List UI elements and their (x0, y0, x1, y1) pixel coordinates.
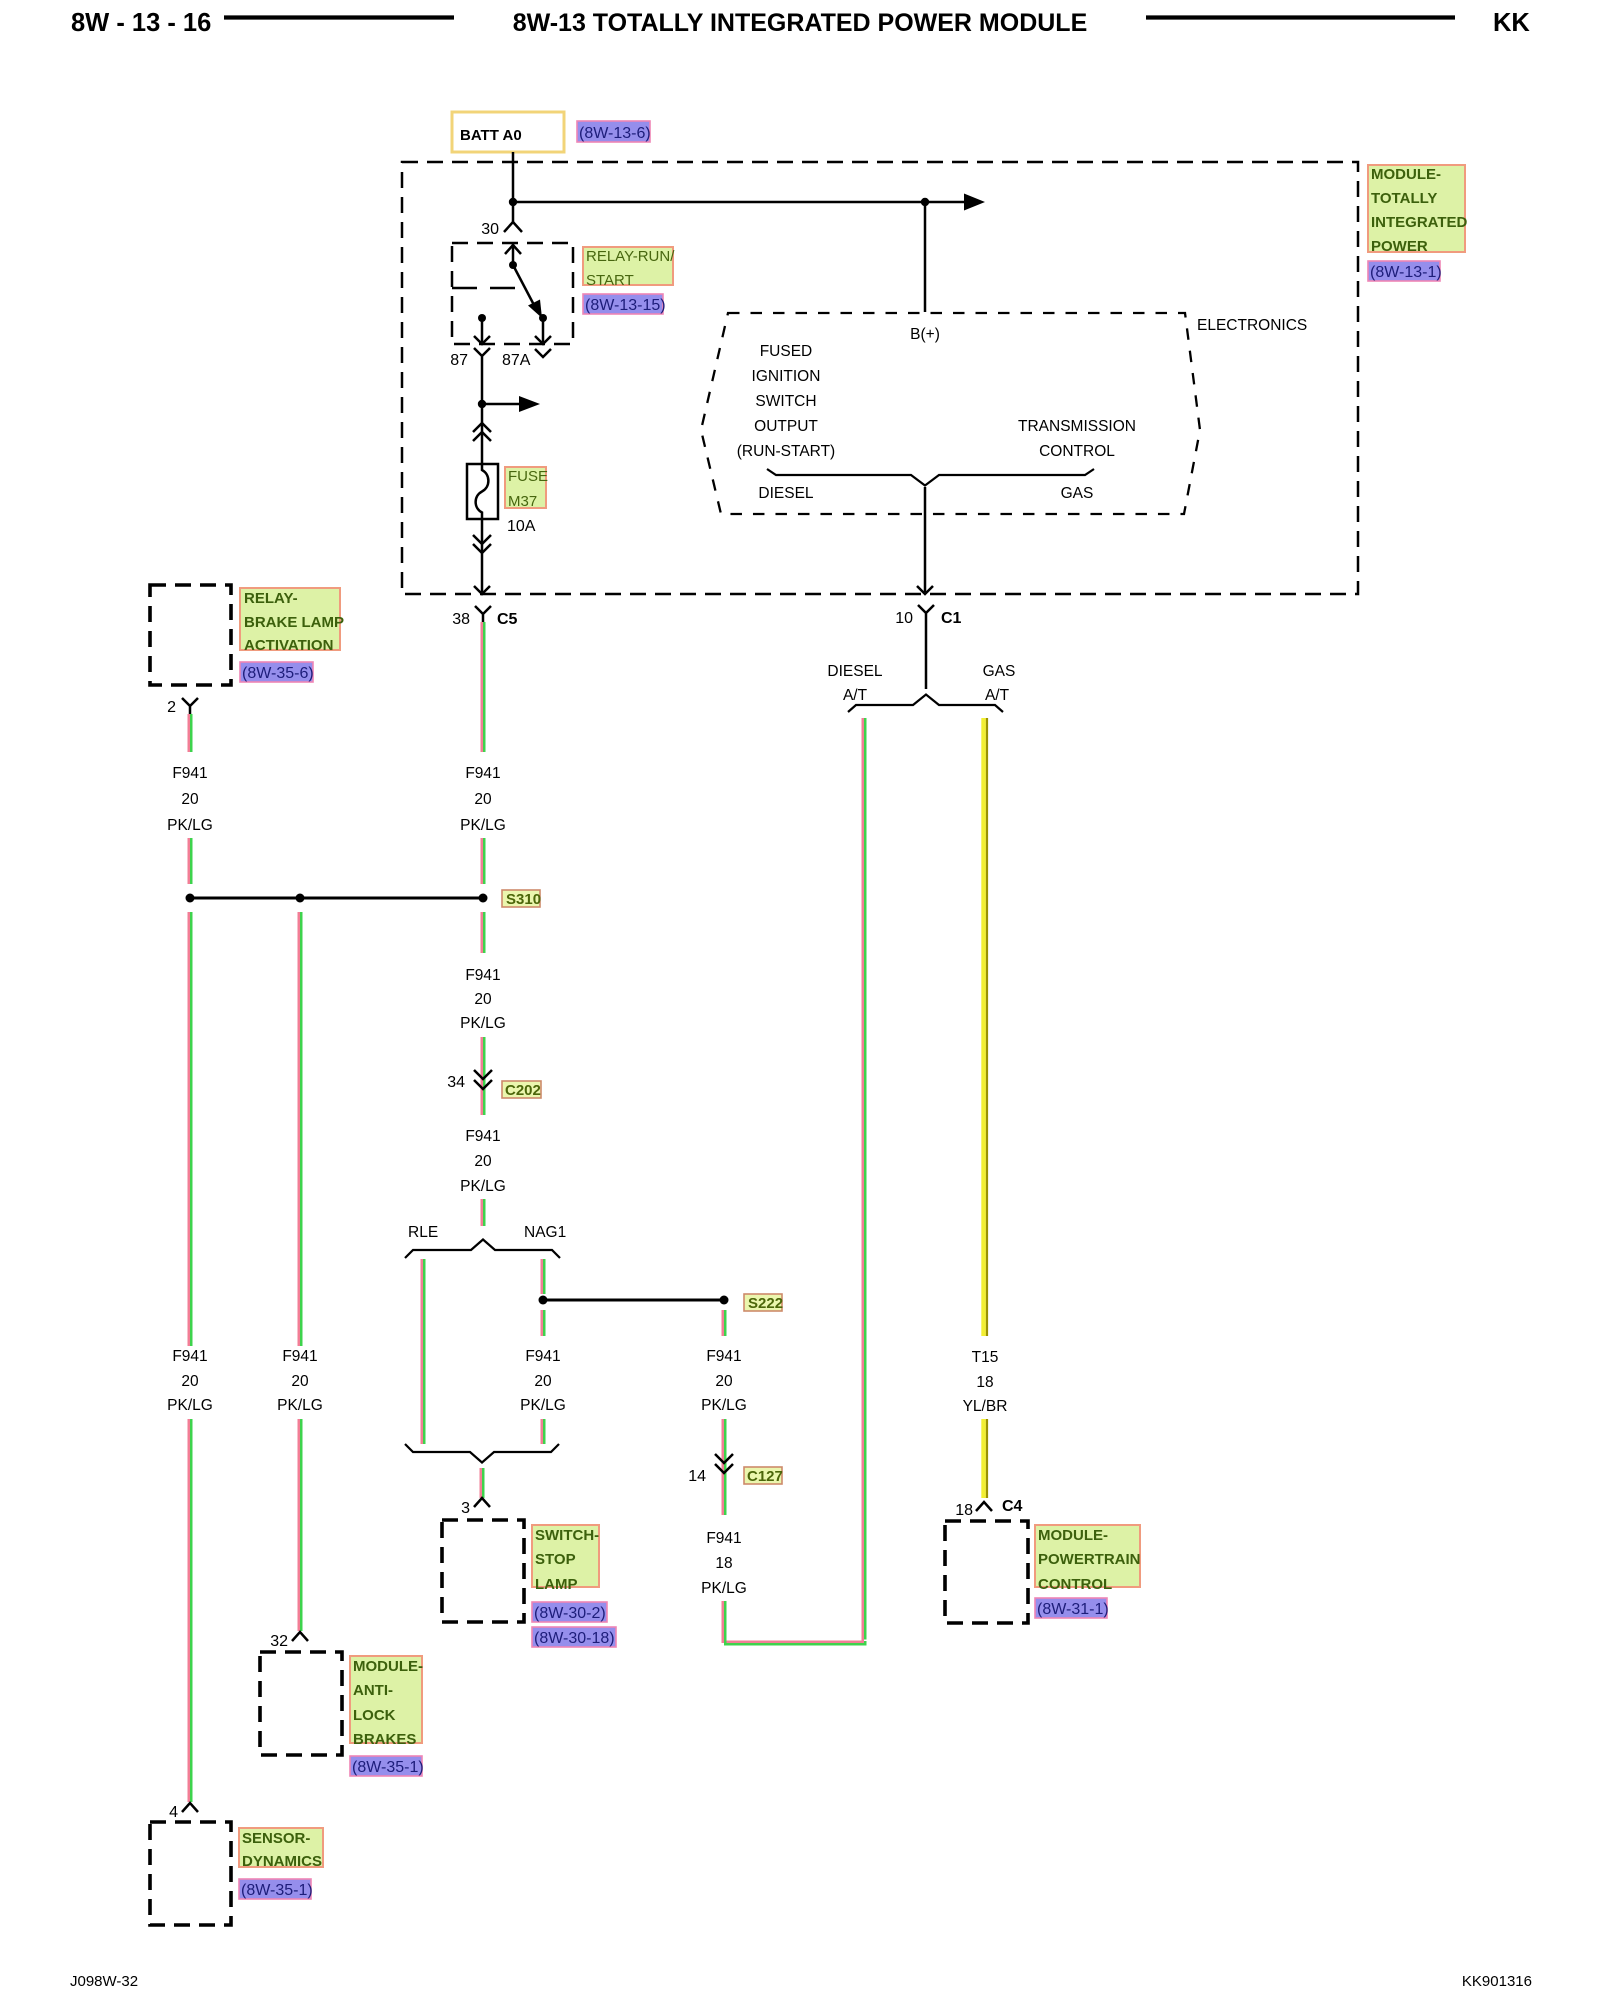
wire RLE branch (422, 1259, 425, 1444)
svg-text:F941: F941 (525, 1348, 560, 1365)
wire fuse to C5 exit (481, 519, 484, 592)
wire junction to fuse (481, 404, 484, 466)
svg-text:(8W-35-1): (8W-35-1) (352, 1759, 424, 1776)
svg-text:B(+): B(+) (910, 326, 940, 343)
svg-text:IGNITION: IGNITION (752, 368, 821, 385)
arrow exit at TIPM edge (474, 586, 490, 594)
svg-text:S222: S222 (748, 1295, 783, 1312)
junction node S310 middle (296, 894, 305, 903)
svg-text:(RUN-START): (RUN-START) (737, 443, 835, 460)
svg-text:F941: F941 (465, 967, 500, 984)
svg-text:RLE: RLE (408, 1224, 438, 1241)
connector C202 pin 34 chevrons (447, 1070, 492, 1091)
wire label F941 18 PK/LG (701, 1530, 747, 1597)
pin 87 connector Y (450, 348, 490, 369)
svg-text:GAS: GAS (1061, 485, 1094, 502)
brace merge RLE/NAG1 (405, 1444, 559, 1463)
svg-text:MODULE-: MODULE- (1371, 166, 1441, 183)
svg-text:8W - 13 - 16: 8W - 13 - 16 (71, 9, 211, 37)
wire electronics to C1 exit (924, 487, 927, 592)
wire pin 2 drop to splice S310 (189, 838, 192, 884)
svg-text:2: 2 (167, 699, 176, 716)
svg-text:LOCK: LOCK (353, 1707, 396, 1724)
svg-text:STOP: STOP (535, 1551, 576, 1568)
wire C1 lead (925, 622, 928, 689)
wire middle branch to pin 32 (299, 1419, 302, 1631)
wire NAG1 below S222 (542, 1310, 545, 1336)
wire merge to pin 3 (481, 1468, 484, 1498)
svg-text:PK/LG: PK/LG (701, 1580, 747, 1597)
svg-text:32: 32 (270, 1633, 288, 1650)
wire through C127 (723, 1419, 726, 1515)
junction node S310 left (186, 894, 195, 903)
svg-text:RELAY-RUN/: RELAY-RUN/ (586, 248, 675, 265)
svg-text:10: 10 (895, 610, 913, 627)
svg-text:INTEGRATED: INTEGRATED (1371, 214, 1468, 231)
ref label (8W-30-2) (532, 1602, 607, 1622)
splice S310 bus (190, 897, 483, 900)
ref label (8W-35-1) sensor (239, 1879, 313, 1899)
svg-text:MODULE-: MODULE- (1038, 1527, 1108, 1544)
svg-text:(8W-30-2): (8W-30-2) (534, 1605, 606, 1622)
wire label F941 20 PK/LG (NAG1) (520, 1348, 566, 1414)
wire S222 right branch down (723, 1310, 726, 1336)
pin 4 connector chevron (169, 1803, 198, 1821)
junction node S310 right (479, 894, 488, 903)
wire label F941 20 PK/LG (C5 drop) (460, 765, 506, 834)
wire BATT A0 feed into TIPM (512, 152, 515, 222)
svg-text:SENSOR-: SENSOR- (242, 1830, 310, 1847)
svg-text:KK901316: KK901316 (1462, 1973, 1532, 1990)
svg-text:KK: KK (1493, 9, 1530, 37)
component label SENSOR-DYNAMICS (239, 1828, 323, 1870)
svg-text:18: 18 (976, 1374, 993, 1391)
wire C127 to diesel junction elbow (723, 1601, 866, 1644)
svg-text:T15: T15 (972, 1349, 999, 1366)
svg-text:87A: 87A (502, 352, 531, 369)
wire through C202 (482, 1037, 485, 1115)
svg-text:20: 20 (715, 1373, 733, 1390)
svg-text:FUSE: FUSE (508, 468, 548, 485)
wire label F941 20 PK/LG (above C202) (460, 967, 506, 1032)
svg-text:F941: F941 (465, 765, 500, 782)
component label MODULE-POWERTRAIN CONTROL (1035, 1525, 1141, 1593)
header rule left (224, 15, 454, 19)
connector C127 pin 14 chevrons (688, 1454, 733, 1485)
fuse M37 box (467, 464, 498, 519)
svg-text:38: 38 (452, 611, 470, 628)
svg-text:20: 20 (474, 991, 492, 1008)
module label MODULE-TOTALLY INTEGRATED POWER (1368, 165, 1468, 255)
svg-text:OUTPUT: OUTPUT (754, 418, 818, 435)
svg-text:DIESEL: DIESEL (758, 485, 814, 502)
svg-text:14: 14 (688, 1468, 706, 1485)
svg-text:C202: C202 (505, 1082, 541, 1099)
svg-text:C4: C4 (1002, 1498, 1023, 1515)
svg-text:TRANSMISSION: TRANSMISSION (1018, 418, 1136, 435)
connector BATT A0 box (452, 112, 564, 152)
svg-text:3: 3 (461, 1500, 470, 1517)
relay movable contact arm to 87A (513, 265, 547, 322)
in-line connector chevrons up (473, 423, 491, 441)
relay K1 run/start dashed box (452, 243, 573, 344)
net label C202 (502, 1081, 541, 1099)
svg-text:PK/LG: PK/LG (460, 1178, 506, 1195)
block label TRANSMISSION CONTROL (1018, 418, 1136, 460)
arrow branch continues right (519, 396, 540, 412)
wire S310 middle branch down (299, 912, 302, 1346)
svg-text:DYNAMICS: DYNAMICS (242, 1853, 322, 1870)
svg-text:34: 34 (447, 1074, 465, 1091)
svg-text:M37: M37 (508, 493, 537, 510)
svg-text:20: 20 (181, 791, 199, 808)
wire DIESEL A/T pink-green (863, 718, 866, 1642)
svg-text:(8W-31-1): (8W-31-1) (1037, 1601, 1109, 1618)
wire feed to B(+) branch (513, 201, 964, 204)
svg-text:RELAY-: RELAY- (244, 590, 298, 607)
ref label (8W-35-6) (240, 662, 314, 682)
svg-text:F941: F941 (706, 1348, 741, 1365)
svg-text:C127: C127 (747, 1468, 783, 1485)
svg-text:PK/LG: PK/LG (520, 1397, 566, 1414)
wire T15 GAS A/T yellow (984, 718, 987, 1336)
net label C127 (744, 1467, 783, 1485)
connector C4 pin 18 (955, 1498, 1022, 1519)
svg-text:S310: S310 (506, 891, 541, 908)
svg-text:F941: F941 (282, 1348, 317, 1365)
wire C5 drop to splice S310 (482, 838, 485, 884)
svg-text:ELECTRONICS: ELECTRONICS (1197, 317, 1307, 334)
svg-text:(8W-13-15): (8W-13-15) (585, 297, 666, 314)
ref label (8W-31-1) (1035, 1598, 1109, 1618)
svg-text:18: 18 (715, 1555, 732, 1572)
svg-text:BRAKES: BRAKES (353, 1731, 416, 1748)
svg-text:PK/LG: PK/LG (460, 817, 506, 834)
component label RELAY-BRAKE LAMP ACTIVATION (240, 588, 344, 654)
svg-text:20: 20 (474, 791, 492, 808)
switch stop lamp dashed box (442, 1520, 524, 1622)
junction node S222 left (539, 1296, 548, 1305)
wire label F941 20 PK/LG (left column) (167, 1348, 213, 1414)
svg-text:(8W-35-1): (8W-35-1) (241, 1882, 313, 1899)
svg-text:YL/BR: YL/BR (963, 1398, 1008, 1415)
svg-text:LAMP: LAMP (535, 1576, 578, 1593)
ref label (8W-35-1) abs (350, 1756, 424, 1776)
pin 87A connector V (502, 349, 551, 369)
svg-text:PK/LG: PK/LG (167, 817, 213, 834)
wire pin 2 drop (189, 714, 192, 752)
svg-text:F941: F941 (465, 1128, 500, 1145)
relay throw 87 leg (474, 314, 490, 344)
junction node 87 branch (478, 400, 486, 408)
svg-text:PK/LG: PK/LG (277, 1397, 323, 1414)
svg-text:NAG1: NAG1 (524, 1224, 566, 1241)
svg-text:POWERTRAIN: POWERTRAIN (1038, 1551, 1141, 1568)
wire NAG1 to merge brace (542, 1419, 545, 1444)
arrow exit at TIPM edge (917, 586, 933, 594)
svg-text:20: 20 (474, 1153, 492, 1170)
svg-text:4: 4 (169, 1804, 178, 1821)
brace split diesel/gas (848, 695, 1003, 713)
svg-text:A/T: A/T (985, 687, 1010, 704)
net label S222 (744, 1294, 783, 1312)
header rule right (1146, 15, 1455, 19)
svg-text:(8W-13-6): (8W-13-6) (579, 125, 651, 142)
ref label (8W-13-15) (583, 294, 666, 314)
svg-text:ANTI-: ANTI- (353, 1682, 393, 1699)
svg-text:CONTROL: CONTROL (1039, 443, 1115, 460)
svg-text:87: 87 (450, 352, 468, 369)
wire left column to pin 4 (189, 1419, 192, 1802)
wire 87 leg down (481, 366, 484, 404)
svg-text:TOTALLY: TOTALLY (1371, 190, 1437, 207)
relay fixed contact dashed tick (452, 287, 516, 290)
svg-text:C1: C1 (941, 610, 962, 627)
svg-text:F941: F941 (172, 765, 207, 782)
component label MODULE-ANTI-LOCK BRAKES (350, 1656, 423, 1748)
svg-text:C5: C5 (497, 611, 518, 628)
svg-text:F941: F941 (706, 1530, 741, 1547)
svg-text:POWER: POWER (1371, 238, 1428, 255)
svg-text:F941: F941 (172, 1348, 207, 1365)
svg-text:20: 20 (291, 1373, 309, 1390)
svg-text:(8W-13-1): (8W-13-1) (1370, 264, 1442, 281)
svg-text:30: 30 (481, 221, 499, 238)
pin 32 connector chevron (270, 1632, 308, 1650)
in-line connector chevrons down (473, 535, 491, 553)
wire C5 pin 38 drop (482, 622, 485, 752)
wire branch right (482, 403, 519, 406)
net label S310 (502, 890, 541, 908)
electronics block dashed outline (701, 313, 1200, 514)
net label DIESEL A/T (827, 663, 883, 704)
component label FUSE M37 (505, 467, 548, 510)
svg-text:18: 18 (955, 1502, 973, 1519)
wire label F941 20 PK/LG (below C202) (460, 1128, 506, 1195)
svg-text:PK/LG: PK/LG (701, 1397, 747, 1414)
svg-text:MODULE-: MODULE- (353, 1658, 423, 1675)
relay common leg pin 30 (505, 243, 521, 269)
wire label F941 20 PK/LG (S222 branch) (701, 1348, 747, 1414)
component label RELAY-RUN/START (583, 247, 675, 289)
wire label F941 20 PK/LG (pin 2 drop) (167, 765, 213, 834)
block label FUSED IGNITION SWITCH OUTPUT (RUN-START) (737, 343, 835, 460)
svg-text:(8W-35-6): (8W-35-6) (242, 665, 314, 682)
wire S310 to C202 (482, 912, 485, 953)
svg-text:DIESEL: DIESEL (827, 663, 883, 680)
junction node feed split (509, 198, 517, 206)
svg-text:(8W-30-18): (8W-30-18) (534, 1630, 615, 1647)
module PCM dashed box (945, 1521, 1028, 1623)
svg-text:8W-13 TOTALLY INTEGRATED POWER: 8W-13 TOTALLY INTEGRATED POWER MODULE (513, 9, 1088, 37)
module TIPM dashed outline (402, 162, 1358, 594)
connector C1 pin 10 (895, 605, 961, 627)
svg-text:J098W-32: J098W-32 (70, 1973, 138, 1990)
wire B(+) drop to electronics (924, 202, 927, 312)
svg-text:SWITCH-: SWITCH- (535, 1527, 599, 1544)
arrow feed continues right (964, 194, 985, 211)
svg-text:PK/LG: PK/LG (460, 1015, 506, 1032)
svg-text:BATT A0: BATT A0 (460, 127, 522, 144)
svg-text:A/T: A/T (843, 687, 868, 704)
brace merge diesel/gas outputs (767, 469, 1094, 486)
relay throw 87A leg (535, 318, 551, 344)
module ABS dashed box (260, 1652, 342, 1755)
svg-text:START: START (586, 272, 634, 289)
component RELAY-BRAKE LAMP ACTIVATION dashed box (150, 585, 231, 685)
svg-text:BRAKE LAMP: BRAKE LAMP (244, 614, 344, 631)
pin 30 connector chevron (481, 221, 522, 238)
wire label T15 18 YL/BR (963, 1349, 1008, 1415)
svg-text:FUSED: FUSED (760, 343, 813, 360)
pin 2 connector Y (167, 698, 198, 716)
svg-text:CONTROL: CONTROL (1038, 1576, 1112, 1593)
svg-text:PK/LG: PK/LG (167, 1397, 213, 1414)
junction node B(+) tap (921, 198, 929, 206)
component label SWITCH-STOP LAMP (532, 1525, 599, 1593)
svg-text:ACTIVATION: ACTIVATION (244, 637, 333, 654)
pin 3 connector chevron (461, 1498, 490, 1517)
splice S222 bus (543, 1299, 724, 1302)
connector C5 pin 38 (452, 606, 517, 628)
svg-text:10A: 10A (507, 518, 536, 535)
wire S310 to left column (189, 912, 192, 1346)
component SENSOR-DYNAMICS dashed box (150, 1822, 231, 1925)
net label GAS A/T (983, 663, 1016, 704)
wire T15 lower segment (984, 1419, 987, 1498)
wire NAG1 branch to S222 (542, 1259, 545, 1294)
ref label (8W-30-18) (532, 1627, 616, 1647)
wire label F941 20 PK/LG (middle branch) (277, 1348, 323, 1414)
svg-text:SWITCH: SWITCH (755, 393, 816, 410)
ref label (8W-13-6) (577, 121, 651, 142)
svg-text:20: 20 (181, 1373, 199, 1390)
junction node S222 right (720, 1296, 729, 1305)
brace split RLE/NAG1 (405, 1240, 560, 1259)
ref label (8W-13-1) (1368, 261, 1442, 281)
svg-text:GAS: GAS (983, 663, 1016, 680)
wire C202 to RLE/NAG1 split (482, 1199, 485, 1226)
fuse element squiggle (476, 464, 489, 519)
svg-text:20: 20 (534, 1373, 552, 1390)
